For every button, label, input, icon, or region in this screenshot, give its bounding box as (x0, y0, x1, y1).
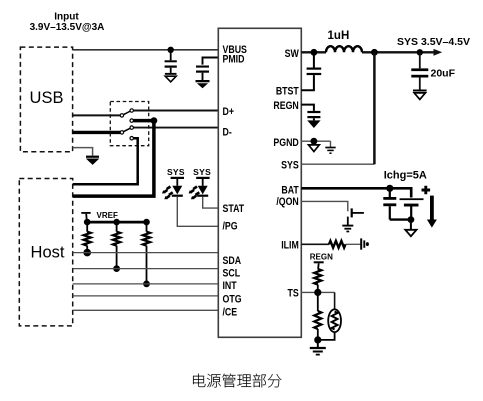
wire QON (301, 201, 348, 211)
ground PGND earth (325, 141, 335, 153)
wire USB D- (73, 131, 121, 134)
LED D1 (171, 177, 184, 197)
svg-text:REGN: REGN (310, 253, 333, 262)
svg-text:Host: Host (31, 244, 65, 262)
junction TS bottom (314, 336, 321, 343)
junction input node (168, 47, 174, 53)
wire SW (301, 51, 326, 53)
svg-text:STAT: STAT (222, 203, 244, 215)
svg-text:SCL: SCL (222, 268, 240, 280)
wire host data 2 (73, 121, 154, 197)
svg-text:PMID: PMID (222, 54, 244, 66)
junction 20uF tap (417, 49, 423, 55)
junction SCL (113, 265, 120, 272)
resistor pullup SDA (84, 222, 91, 253)
svg-text:3.9V–13.5V@3A: 3.9V–13.5V@3A (30, 22, 105, 33)
svg-text:D+: D+ (222, 106, 234, 118)
wire VBUS input (73, 49, 219, 51)
junction battery bottom (408, 216, 415, 223)
junction L1 out (371, 49, 378, 56)
svg-text:REGN: REGN (273, 100, 298, 112)
ground S1 (342, 226, 353, 232)
arrow SYS output (434, 49, 443, 56)
wire USB ground (73, 148, 93, 156)
switch blade 1 (124, 111, 131, 114)
ground ILIM (361, 238, 369, 249)
resistor pullup INT (143, 222, 150, 284)
wire SCL (73, 268, 219, 270)
wire USB D+ (73, 114, 121, 116)
node caption (193, 374, 281, 388)
switch box U2 (110, 102, 148, 146)
wire D- to IC (134, 127, 219, 129)
svg-text:SYS: SYS (167, 167, 185, 177)
Host block (19, 179, 72, 326)
wire TS (301, 291, 334, 293)
junction INT (143, 281, 150, 288)
inductor L1 1uH (326, 30, 362, 53)
svg-text:PGND: PGND (273, 137, 298, 149)
svg-text:/QON: /QON (276, 196, 298, 208)
ground PGND chassis (309, 145, 320, 152)
junction VREF 1 (84, 219, 91, 226)
svg-text:OTG: OTG (222, 294, 241, 306)
node Input label (30, 12, 105, 33)
switch throw T4 (130, 137, 133, 140)
wire SDA (73, 252, 219, 254)
LED D1 bolts (162, 187, 173, 200)
switch blade 2 (124, 128, 131, 131)
arrow Ichg (427, 196, 437, 228)
capacitor PMID C2 (196, 66, 209, 81)
wire VREF bus (87, 221, 146, 224)
junction VREF 2 (113, 219, 120, 226)
svg-text:SDA: SDA (222, 255, 241, 267)
wire SYS pin (301, 163, 374, 165)
svg-text:SW: SW (285, 48, 300, 60)
junction host data 2 (151, 117, 158, 124)
resistor TS lower (314, 292, 321, 340)
wire D+ to IC (134, 110, 219, 112)
U1 left pin labels (222, 44, 247, 319)
switch throw T1 (130, 109, 133, 112)
resistor ILIM (301, 241, 360, 248)
LED D2 (196, 177, 209, 197)
svg-text:Ichg=5A: Ichg=5A (384, 170, 427, 182)
ground USB (86, 156, 99, 164)
wire CE (73, 309, 219, 311)
capacitor input C1 (165, 50, 177, 73)
svg-text:SYS 3.5V–4.5V: SYS 3.5V–4.5V (397, 36, 470, 48)
svg-text:BTST: BTST (276, 86, 299, 98)
junction SW (311, 49, 318, 56)
ground TS (310, 340, 326, 355)
wire BAT (301, 188, 411, 197)
svg-text:BAT: BAT (281, 185, 298, 197)
capacitor C3 20uF (411, 52, 455, 89)
svg-text:D-: D- (222, 127, 231, 139)
thermistor RT1 (318, 292, 341, 340)
node VREF terminal (81, 211, 118, 222)
svg-text:ILIM: ILIM (281, 240, 299, 252)
ground C5 (307, 120, 320, 128)
junction TS (314, 289, 321, 296)
junction BAT (386, 185, 393, 192)
svg-text:TS: TS (288, 287, 300, 299)
junction SDA (83, 249, 91, 257)
svg-text:USB: USB (30, 89, 64, 107)
svg-text:SYS: SYS (193, 167, 211, 177)
capacitor C4 bootstrap (301, 52, 321, 90)
switch throw T3 (130, 126, 133, 129)
wire SYS vertical (373, 52, 376, 164)
battery BT1 (400, 186, 431, 220)
LED D2 bolts (189, 187, 200, 200)
ground C3 (413, 90, 427, 100)
svg-text:SYS: SYS (281, 160, 299, 172)
wire D1 to PG (177, 197, 218, 227)
wire SYS output (362, 51, 435, 53)
svg-text:/PG: /PG (222, 221, 237, 233)
resistor pullup SCL (113, 222, 120, 269)
ground C2 (196, 80, 210, 88)
wire battery bottom (390, 218, 411, 220)
wire OTG (73, 295, 219, 297)
ground C1 (165, 73, 177, 82)
capacitor C6 battery (383, 188, 396, 219)
junction VREF 3 (143, 219, 150, 226)
wire INT (73, 283, 219, 285)
wire D2 to STAT (203, 197, 219, 208)
svg-text:20uF: 20uF (431, 68, 456, 80)
svg-text:INT: INT (222, 280, 236, 292)
switch pole P2 (120, 131, 123, 134)
junction PGND (311, 138, 318, 145)
USB block (20, 47, 72, 152)
svg-text:1uH: 1uH (328, 30, 350, 42)
ground battery (405, 220, 416, 237)
svg-text:/CE: /CE (222, 307, 237, 319)
resistor TS upper (314, 261, 324, 292)
wire host data 1 (73, 138, 138, 184)
svg-text:VREF: VREF (97, 211, 118, 220)
wire PMID (203, 58, 219, 65)
wire PGND (301, 140, 330, 142)
switch pole P1 (120, 114, 123, 117)
capacitor C5 REGN (301, 105, 320, 121)
switch S1 pushbutton (348, 208, 364, 225)
switch throw T2 (130, 119, 133, 122)
op-amp U1 charger IC (218, 28, 301, 337)
U1 right pin labels (273, 48, 299, 300)
